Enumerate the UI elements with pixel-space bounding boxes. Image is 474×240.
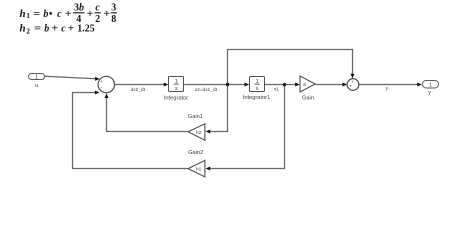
svg-text:y: y — [428, 90, 431, 96]
svg-text:Gain2: Gain2 — [188, 150, 203, 156]
svg-text:h2: h2 — [196, 130, 202, 136]
svg-text:2: 2 — [95, 14, 100, 25]
svg-text:h1: h1 — [196, 167, 202, 173]
svg-text:3b: 3b — [74, 2, 84, 13]
svg-text:+: + — [65, 9, 72, 20]
svg-text:Gain: Gain — [302, 95, 314, 101]
svg-text:b: b — [43, 9, 48, 20]
svg-text:h: h — [20, 8, 26, 20]
svg-text:+: + — [51, 24, 58, 35]
svg-text:b: b — [44, 24, 49, 35]
svg-text:c: c — [61, 24, 66, 35]
svg-text:+: + — [351, 79, 354, 84]
svg-text:+: + — [68, 24, 75, 35]
svg-text:s: s — [175, 86, 178, 92]
svg-text:1: 1 — [26, 11, 30, 20]
svg-text:+: + — [349, 84, 352, 89]
svg-text:s: s — [256, 86, 259, 92]
svg-text:1: 1 — [35, 74, 38, 80]
svg-text:dx2_dt: dx2_dt — [131, 87, 146, 93]
svg-text:u: u — [35, 83, 38, 89]
svg-text:3: 3 — [111, 2, 116, 13]
svg-text:x1: x1 — [274, 87, 279, 93]
svg-text:2: 2 — [26, 26, 30, 35]
svg-text:c: c — [57, 9, 62, 20]
svg-text:=: = — [33, 9, 40, 20]
svg-text:Integrator1: Integrator1 — [243, 95, 271, 101]
svg-text:+: + — [100, 79, 103, 84]
svg-text:=: = — [34, 24, 41, 35]
svg-text:h: h — [20, 23, 26, 35]
svg-text:a: a — [303, 82, 306, 88]
svg-text:+: + — [103, 9, 110, 20]
svg-text:+: + — [87, 9, 94, 20]
svg-text:c: c — [95, 2, 100, 13]
svg-text:8: 8 — [111, 14, 116, 25]
svg-text:Integrator: Integrator — [164, 95, 188, 101]
svg-text:x2=dx1_dt: x2=dx1_dt — [195, 87, 218, 93]
svg-text:1.25: 1.25 — [77, 24, 95, 35]
svg-text:1: 1 — [429, 83, 432, 89]
svg-text:Gain1: Gain1 — [188, 114, 203, 120]
